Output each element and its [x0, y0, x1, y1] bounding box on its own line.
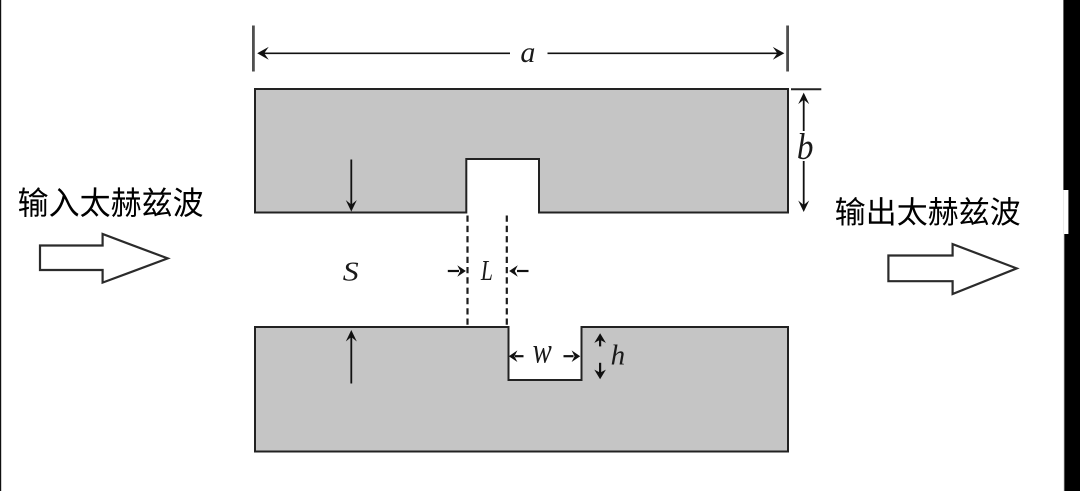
svg-text:w: w [533, 332, 552, 372]
input THz wave label: 输入太赫兹波 [19, 187, 203, 217]
dimension a left segment with arrowhead [257, 47, 510, 60]
dimension h up arrow [594, 333, 606, 346]
dimension w right arrow (points right) [564, 350, 581, 362]
dimension w left arrow (points left) [509, 350, 524, 362]
input THz block arrow [40, 234, 168, 283]
dashed line left of L [466, 216, 468, 327]
dimension a left tick [252, 26, 255, 72]
dimension L right arrow (points left) [509, 265, 528, 277]
right sidebar white notch [1063, 190, 1068, 234]
dimension b upper arrow (up) [798, 93, 809, 131]
gap spacing arrow down (in upper plate) [346, 160, 357, 212]
right sidebar lower thin white strip [1062, 234, 1065, 491]
upper waveguide plate [255, 89, 788, 213]
svg-text:S: S [343, 256, 359, 287]
dimension b lower arrow (down) [798, 161, 809, 212]
dimension a right tick [786, 26, 789, 72]
svg-text:b: b [797, 126, 814, 167]
output THz wave label: 输出太赫兹波 [836, 197, 1020, 226]
dimension L left arrow (points right) [448, 265, 466, 277]
svg-text:h: h [611, 340, 626, 372]
svg-text:L: L [480, 256, 493, 286]
svg-text:a: a [520, 36, 535, 69]
dimension a right segment with arrowhead [548, 47, 785, 60]
dimension h down arrow [594, 363, 606, 379]
right black sidebar [1063, 0, 1080, 491]
gap spacing arrow up (in lower plate) [346, 330, 357, 384]
lower waveguide plate [255, 327, 788, 452]
dimension b top tick [791, 88, 821, 90]
dashed line right of L [506, 216, 508, 327]
output THz block arrow [888, 244, 1016, 294]
left border line [0, 0, 1, 491]
